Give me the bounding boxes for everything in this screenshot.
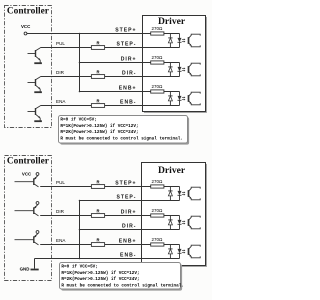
transistor Q1 (NPN): [35, 50, 37, 57]
svg-text:R=0 if VCC=5V;: R=0 if VCC=5V;: [60, 118, 97, 123]
svg-text:ENB+: ENB+: [119, 86, 137, 92]
phototransistor U-ch3: [188, 248, 190, 255]
transistor Q2 (NPN): [35, 79, 37, 86]
note box: [61, 264, 182, 291]
svg-text:ENA: ENA: [56, 238, 66, 243]
svg-text:270Ω: 270Ω: [151, 179, 163, 184]
svg-text:R: R: [96, 209, 99, 214]
svg-text:DIR: DIR: [56, 70, 65, 75]
VCC terminal for Q2: [36, 202, 39, 205]
svg-text:R must be connected to control: R must be connected to control signal te…: [61, 283, 184, 288]
svg-text:270Ω: 270Ω: [151, 26, 163, 31]
GND bus vertical: [79, 201, 81, 259]
svg-text:R=1K(Power>0.125W) if VCC=12V;: R=1K(Power>0.125W) if VCC=12V;: [60, 124, 138, 129]
diode D-ch2 (reverse protection): [169, 216, 171, 220]
junction: [79, 258, 81, 260]
svg-text:ENB-: ENB-: [120, 253, 136, 259]
resistor R1: [91, 46, 104, 50]
svg-text:STEP-: STEP-: [116, 195, 136, 201]
wire ENA to ENB+: [40, 244, 179, 246]
resistor R2: [91, 214, 104, 218]
wire bus to ENB+: [80, 91, 180, 93]
junction: [79, 229, 81, 231]
svg-text:ENB+: ENB+: [119, 239, 137, 245]
svg-text:DIR+: DIR+: [121, 210, 137, 216]
ground Q2: [34, 91, 42, 93]
wire PUL to STEP+: [40, 186, 179, 188]
phototransistor U-ch2: [188, 219, 190, 226]
resistor ch1 270ohm: [151, 32, 164, 35]
resistor R1: [91, 185, 104, 189]
svg-text:STEP-: STEP-: [116, 42, 136, 48]
ground GND: [31, 269, 39, 271]
light arrows ch1: [182, 38, 185, 40]
svg-text:270Ω: 270Ω: [151, 237, 163, 242]
transistor Q3 (PNP): [33, 236, 35, 243]
svg-text:DIR: DIR: [56, 209, 65, 214]
svg-text:GND: GND: [20, 267, 30, 272]
svg-text:R: R: [96, 99, 99, 104]
resistor ch1 270ohm: [151, 185, 164, 188]
Driver box (pnp figure): [143, 164, 207, 267]
svg-text:270Ω: 270Ω: [151, 84, 163, 89]
VCC terminal for Q1: [36, 173, 39, 176]
Controller box (npn figure): [5, 6, 52, 128]
junction: [79, 62, 81, 64]
resistor ch3 270ohm: [151, 243, 164, 246]
svg-text:ENA: ENA: [56, 99, 66, 104]
svg-text:PUL: PUL: [56, 180, 65, 185]
junction: [79, 91, 81, 93]
wire ENA to ENB-: [40, 105, 179, 107]
phototransistor U-ch3: [188, 95, 190, 102]
resistor R2: [91, 75, 104, 79]
light arrows ch1: [182, 191, 185, 193]
VCC terminal: [24, 32, 27, 35]
junction: [79, 200, 81, 202]
resistor ch2 270ohm: [151, 61, 164, 64]
svg-text:R must be connected to control: R must be connected to control signal te…: [60, 136, 183, 141]
svg-text:R: R: [96, 180, 99, 185]
light arrows ch3: [182, 96, 185, 98]
svg-text:Controller: Controller: [7, 7, 49, 17]
svg-text:Controller: Controller: [7, 157, 49, 167]
wire bus to STEP-: [80, 200, 180, 202]
VCC terminal for Q3: [36, 231, 39, 234]
wire VCC to STEP+: [27, 33, 180, 35]
svg-text:R=2K(Power>0.125W) if VCC=24V;: R=2K(Power>0.125W) if VCC=24V;: [60, 130, 138, 135]
junction: [79, 33, 81, 35]
resistor R3: [91, 243, 104, 247]
svg-text:VCC: VCC: [22, 171, 32, 176]
transistor Q3 (NPN): [35, 108, 37, 115]
transistor Q2 (PNP): [33, 207, 35, 214]
svg-text:DIR-: DIR-: [122, 71, 136, 77]
wire ENB- to GND: [34, 259, 36, 269]
diode D-ch3 (reverse protection): [169, 245, 171, 249]
light arrows ch2: [182, 220, 185, 222]
svg-text:R: R: [96, 238, 99, 243]
svg-text:R=0 if VCC=5V;: R=0 if VCC=5V;: [61, 265, 98, 270]
svg-text:R: R: [96, 70, 99, 75]
svg-text:ENB-: ENB-: [120, 100, 136, 106]
resistor ch2 270ohm: [151, 214, 164, 217]
VCC bus vertical: [79, 34, 81, 92]
ground Q3: [34, 120, 42, 122]
LED of optocoupler U-ch3: [179, 92, 181, 96]
LED of optocoupler U-ch1: [179, 187, 181, 191]
light arrows ch2: [182, 67, 185, 69]
phototransistor U-ch1: [188, 37, 190, 44]
wire bus to DIR+: [80, 62, 180, 64]
svg-text:DIR-: DIR-: [122, 224, 136, 230]
wire bus to ENB-: [35, 258, 180, 260]
svg-text:PUL: PUL: [56, 41, 65, 46]
wire DIR to DIR-: [40, 76, 179, 78]
diode D-ch3 (reverse protection): [169, 92, 171, 96]
diode D-ch1 (reverse protection): [169, 187, 171, 191]
LED of optocoupler U-ch1: [179, 34, 181, 38]
svg-text:R=1K(Power>0.125W) if VCC=12V;: R=1K(Power>0.125W) if VCC=12V;: [61, 271, 139, 276]
svg-text:STEP+: STEP+: [115, 28, 136, 34]
svg-text:STEP+: STEP+: [115, 181, 136, 187]
Driver box (npn figure): [144, 17, 207, 113]
transistor Q1 (PNP): [33, 178, 35, 185]
phototransistor U-ch1: [188, 190, 190, 197]
wire PUL to STEP-: [40, 47, 179, 49]
svg-text:Driver: Driver: [158, 165, 186, 176]
resistor ch3 270ohm: [151, 90, 164, 93]
diode D-ch1 (reverse protection): [169, 34, 171, 38]
svg-text:270Ω: 270Ω: [151, 208, 163, 213]
svg-text:VCC: VCC: [21, 24, 31, 29]
ground Q1: [34, 62, 42, 64]
light arrows ch3: [182, 249, 185, 251]
svg-text:DIR+: DIR+: [121, 57, 137, 63]
LED of optocoupler U-ch2: [179, 63, 181, 67]
wire bus to DIR-: [80, 229, 180, 231]
wire DIR to DIR+: [40, 215, 179, 217]
phototransistor U-ch2: [188, 66, 190, 73]
LED of optocoupler U-ch3: [179, 245, 181, 249]
svg-text:R: R: [96, 41, 99, 46]
Controller box (pnp figure): [5, 156, 52, 281]
resistor R3: [91, 104, 104, 108]
svg-text:270Ω: 270Ω: [151, 55, 163, 60]
svg-text:R=2K(Power>0.125W) if VCC=24V;: R=2K(Power>0.125W) if VCC=24V;: [61, 277, 139, 282]
diode D-ch2 (reverse protection): [169, 63, 171, 67]
note box: [60, 117, 189, 145]
LED of optocoupler U-ch2: [179, 216, 181, 220]
